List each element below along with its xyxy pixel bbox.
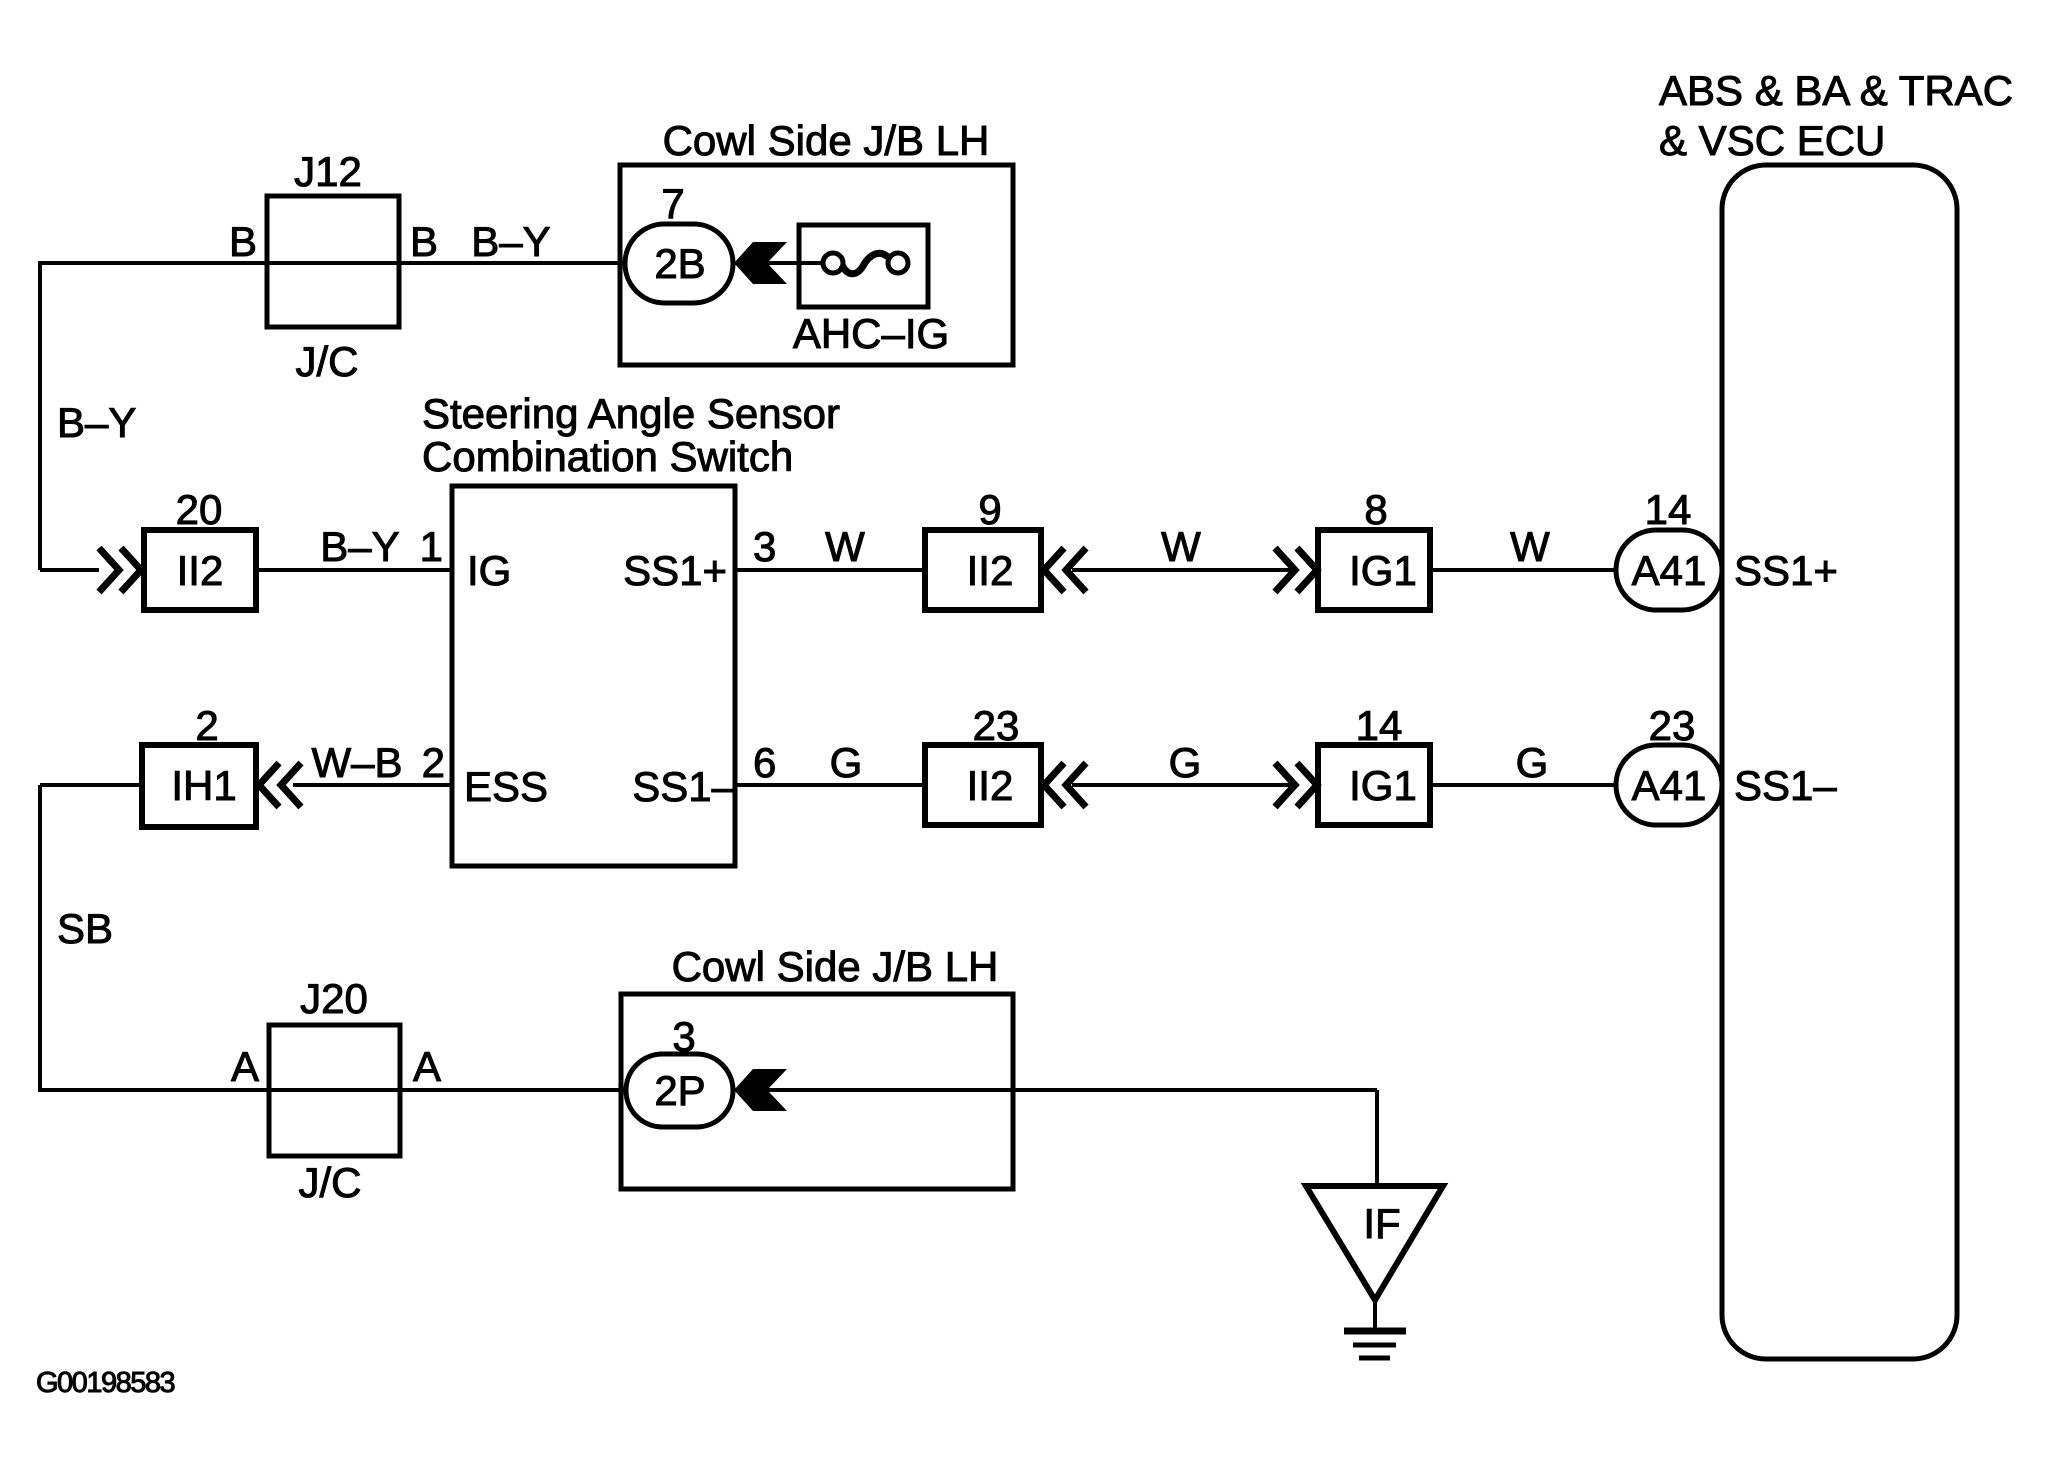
svg-text:G: G xyxy=(1169,739,1202,786)
connector 2P (oval) xyxy=(626,1054,733,1127)
wire from left vertical to connector II2 pin 20 xyxy=(40,568,99,572)
svg-text:9: 9 xyxy=(978,486,1001,533)
svg-text:Steering Angle Sensor: Steering Angle Sensor xyxy=(422,390,840,437)
female connector chevrons out of IH1 xyxy=(259,763,301,807)
connector IG1 (pin 14) xyxy=(1318,745,1430,825)
svg-text:3: 3 xyxy=(753,523,776,570)
svg-text:2: 2 xyxy=(422,739,445,786)
connector II2 (pin 20) xyxy=(144,530,256,610)
wire B-Y from J12 to Cowl Side J/B LH pin 2B xyxy=(399,261,626,265)
svg-text:G: G xyxy=(830,739,863,786)
svg-text:2P: 2P xyxy=(654,1067,705,1114)
connector II2 (pin 23) xyxy=(925,745,1041,825)
solid connector arrow at 2P xyxy=(734,1069,787,1111)
svg-text:G00198583: G00198583 xyxy=(36,1367,174,1399)
wire B-Y vertical left (node from J12 branch down to II2 pin 20) xyxy=(38,263,42,570)
svg-text:IG: IG xyxy=(467,547,511,594)
svg-text:Cowl Side J/B LH: Cowl Side J/B LH xyxy=(663,117,990,164)
svg-text:J12: J12 xyxy=(294,148,362,195)
svg-text:W–B: W–B xyxy=(311,739,402,786)
male connector chevrons into II2 pin 20 xyxy=(99,548,141,592)
wire G between II2 and IG1 xyxy=(1072,783,1293,787)
wire W from switch pin 3 (SS1+) to II2 pin 9 xyxy=(735,568,925,572)
fuse AHC-IG xyxy=(799,225,928,307)
svg-text:IH1: IH1 xyxy=(171,762,236,809)
svg-text:II2: II2 xyxy=(967,547,1014,594)
svg-text:14: 14 xyxy=(1645,486,1692,533)
wire from IF apex to ground xyxy=(1373,1298,1377,1331)
junction block Cowl Side J/B LH (top) xyxy=(620,165,1013,365)
male connector chevrons into IG1 pin 8 xyxy=(1275,548,1317,592)
junction block Cowl Side J/B LH (bottom) xyxy=(621,994,1013,1189)
svg-text:W: W xyxy=(825,523,865,570)
svg-text:IF: IF xyxy=(1363,1200,1400,1247)
component ABS & BA & TRAC & VSC ECU (rounded box) xyxy=(1722,165,1957,1359)
svg-text:23: 23 xyxy=(973,702,1020,749)
svg-text:B–Y: B–Y xyxy=(471,218,550,265)
svg-text:J/C: J/C xyxy=(299,1159,362,1206)
svg-text:SB: SB xyxy=(57,905,113,952)
svg-text:A: A xyxy=(413,1043,441,1090)
svg-text:B: B xyxy=(229,218,257,265)
svg-text:23: 23 xyxy=(1649,702,1696,749)
svg-text:B: B xyxy=(410,218,438,265)
svg-text:J20: J20 xyxy=(300,975,368,1022)
ground symbol xyxy=(1344,1331,1406,1358)
svg-text:& VSC ECU: & VSC ECU xyxy=(1659,117,1885,164)
connector IG1 (pin 8) xyxy=(1318,530,1430,610)
wire SB vertical left (IH1 down to J20 row) xyxy=(38,785,42,1090)
svg-text:J/C: J/C xyxy=(296,338,359,385)
svg-text:II2: II2 xyxy=(967,762,1014,809)
svg-text:8: 8 xyxy=(1364,486,1387,533)
svg-text:ESS: ESS xyxy=(464,763,548,810)
wire W from IG1 to ECU terminal A41 pin 14 xyxy=(1430,568,1620,572)
wire A from J20 to Cowl Side J/B LH pin 2P xyxy=(400,1088,627,1092)
svg-text:20: 20 xyxy=(176,486,223,533)
svg-text:SS1+: SS1+ xyxy=(623,547,727,594)
svg-text:B–Y: B–Y xyxy=(57,399,136,446)
svg-text:A41: A41 xyxy=(1632,547,1707,594)
junction connector J12 (J/C) xyxy=(267,196,399,327)
component Steering Angle Sensor / Combination Switch box xyxy=(452,486,735,866)
wire B-Y from II2 to switch pin 1 (IG) xyxy=(256,568,452,572)
svg-text:Combination Switch: Combination Switch xyxy=(422,433,793,480)
wire inside J12 xyxy=(267,261,399,265)
svg-text:B–Y: B–Y xyxy=(320,523,399,570)
wire B horizontal into J12 xyxy=(38,261,267,265)
female connector chevrons out of II2 pin 9 xyxy=(1044,548,1086,592)
wire W-B from switch pin 2 (ESS) to IH1 xyxy=(293,783,452,787)
wire from arrow through cowl box to ground branch xyxy=(769,1088,1377,1092)
connector 2B (oval) xyxy=(625,224,733,303)
ECU terminal A41 (pin 23, oval) xyxy=(1616,745,1722,825)
svg-text:SS1–: SS1– xyxy=(632,763,735,810)
wire from fuse AHC-IG to arrow xyxy=(769,261,824,265)
svg-text:G: G xyxy=(1516,739,1549,786)
wire SB horizontal to J20 xyxy=(38,1088,269,1092)
ground connector IF (triangle) xyxy=(1306,1186,1443,1300)
svg-text:Cowl Side J/B LH: Cowl Side J/B LH xyxy=(672,943,999,990)
wire vertical down to ground triangle IF xyxy=(1375,1090,1379,1186)
svg-text:14: 14 xyxy=(1356,702,1403,749)
svg-text:II2: II2 xyxy=(177,547,224,594)
connector II2 (pin 9) xyxy=(925,530,1041,610)
svg-text:IG1: IG1 xyxy=(1349,547,1417,594)
svg-text:SS1–: SS1– xyxy=(1734,762,1837,809)
wire G from IG1 to ECU terminal A41 pin 23 xyxy=(1430,783,1620,787)
wire SB from IH1 left to vertical run xyxy=(40,783,142,787)
svg-text:SS1+: SS1+ xyxy=(1734,547,1838,594)
svg-text:1: 1 xyxy=(420,523,443,570)
svg-text:IG1: IG1 xyxy=(1349,762,1417,809)
wire G from switch pin 6 (SS1-) to II2 pin 23 xyxy=(735,783,925,787)
svg-text:A: A xyxy=(231,1043,259,1090)
solid connector arrow at 2B xyxy=(734,242,787,284)
female connector chevrons out of II2 pin 23 xyxy=(1044,763,1086,807)
junction connector J20 (J/C) xyxy=(269,1025,400,1156)
male connector chevrons into IG1 pin 14 xyxy=(1275,763,1317,807)
ECU terminal A41 (pin 14, oval) xyxy=(1616,530,1722,610)
wire W between II2 and IG1 xyxy=(1072,568,1293,572)
svg-text:2B: 2B xyxy=(654,240,705,287)
svg-text:W: W xyxy=(1510,523,1550,570)
svg-text:7: 7 xyxy=(661,180,684,227)
svg-text:W: W xyxy=(1161,523,1201,570)
svg-text:6: 6 xyxy=(753,739,776,786)
wire A inside J20 xyxy=(269,1088,400,1092)
svg-text:A41: A41 xyxy=(1632,762,1707,809)
svg-text:2: 2 xyxy=(195,702,218,749)
svg-text:ABS & BA & TRAC: ABS & BA & TRAC xyxy=(1659,67,2013,114)
connector IH1 (pin 2) xyxy=(142,745,256,827)
svg-text:AHC–IG: AHC–IG xyxy=(793,310,949,357)
